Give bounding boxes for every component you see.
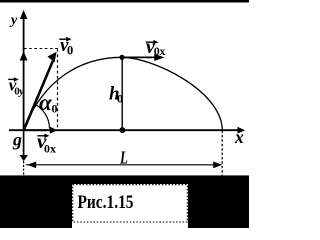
svg-text:0: 0 [52, 101, 58, 115]
svg-text:y: y [17, 85, 24, 97]
svg-text:L: L [119, 149, 128, 169]
svg-text:x: x [50, 141, 56, 155]
svg-text:y: y [9, 13, 18, 28]
svg-text:x: x [234, 127, 244, 147]
svg-text:0: 0 [117, 92, 123, 106]
svg-text:g: g [12, 130, 22, 150]
svg-text:x: x [160, 44, 166, 58]
svg-text:0: 0 [67, 44, 73, 58]
svg-text:Рис.1.15: Рис.1.15 [78, 192, 134, 213]
